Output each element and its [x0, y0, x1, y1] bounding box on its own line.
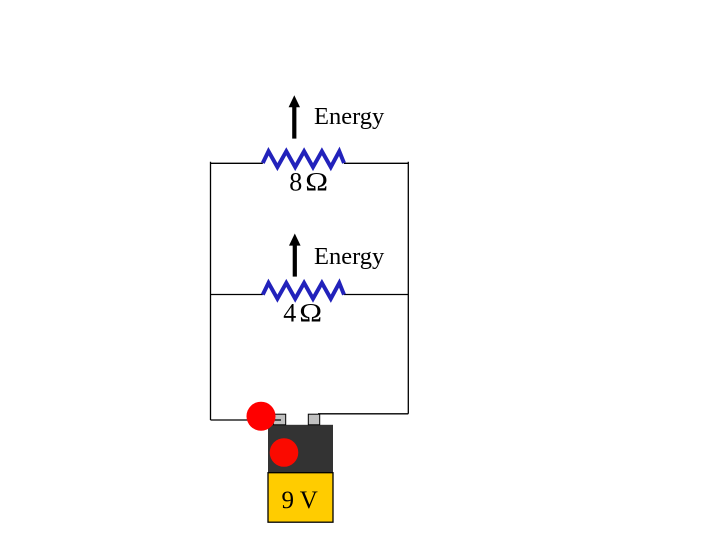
svg-text:Energy: Energy: [314, 103, 385, 130]
svg-text:9 V: 9 V: [282, 487, 318, 514]
svg-text:Ω: Ω: [299, 299, 322, 327]
svg-text:8: 8: [289, 167, 302, 196]
svg-text:Ω: Ω: [305, 168, 328, 196]
svg-text:Energy: Energy: [314, 243, 385, 270]
svg-text:4: 4: [283, 298, 296, 327]
